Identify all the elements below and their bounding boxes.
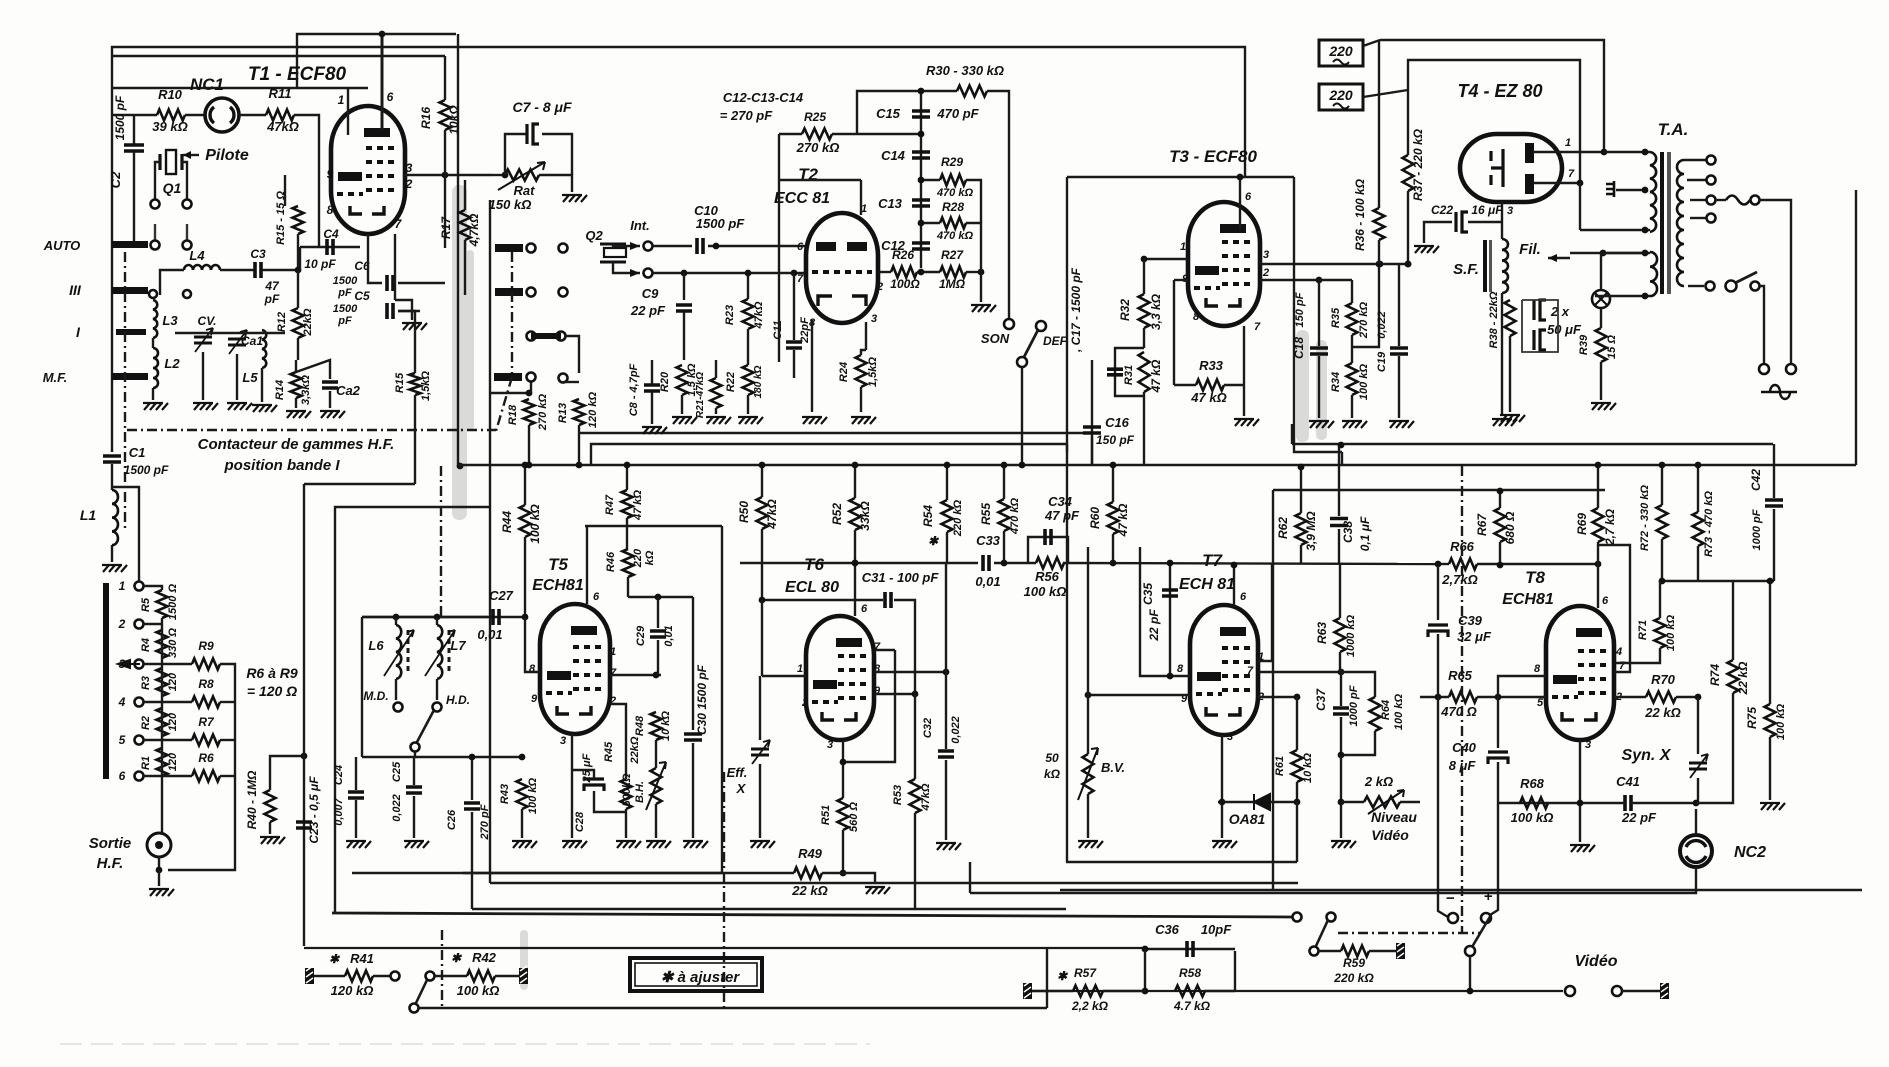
wire Q1 left leg (155, 162, 160, 199)
wire R21 up (715, 360, 717, 378)
node C23 tap (301, 753, 308, 760)
svg-text:4: 4 (1615, 646, 1622, 658)
terminal box 220 lower (1319, 84, 1363, 110)
wire R25 right (832, 133, 921, 135)
wire Rat right (539, 175, 572, 192)
trimmer CV (194, 337, 212, 343)
filter choke S.F. (1483, 240, 1487, 292)
svg-text:220 kΩ: 220 kΩ (1333, 971, 1374, 985)
chain line left (124, 252, 126, 530)
contact d1 (527, 288, 536, 297)
svg-text:10 pF: 10 pF (304, 257, 336, 271)
wire Q2 top (613, 244, 640, 246)
svg-text:R14: R14 (274, 380, 286, 400)
svg-text:R52: R52 (830, 503, 844, 525)
wire C36 line (1145, 948, 1235, 950)
resistor R15 (293, 206, 304, 234)
svg-text:Eff.: Eff. (727, 765, 748, 780)
svg-text:R2: R2 (140, 716, 152, 730)
node R65-C39 (1435, 694, 1442, 701)
wire R49 left (463, 872, 794, 874)
wire NC2 down (970, 867, 1696, 893)
coil L3 (153, 300, 157, 338)
svg-text:22 kΩ: 22 kΩ (1736, 661, 1750, 695)
potentiometer Rat (505, 170, 539, 181)
wire NC1-R11 (239, 114, 266, 116)
wire R54 up (946, 465, 948, 500)
svg-text:120: 120 (167, 752, 179, 771)
chain R42 (441, 930, 443, 1010)
svg-text:100Ω: 100Ω (890, 277, 920, 291)
ground R27-R28 (971, 305, 996, 312)
resistor R49 (794, 868, 822, 879)
svg-text:III: III (69, 282, 82, 298)
resistor R15b (410, 373, 421, 395)
wire R39 down (1600, 362, 1602, 400)
wire R71 down (1616, 648, 1660, 663)
wire effx gnd (759, 764, 761, 838)
wire C39 down (1437, 634, 1439, 697)
svg-text:3: 3 (871, 313, 877, 325)
wire R25 line (779, 133, 802, 135)
capacitor C41 (1625, 795, 1631, 811)
contact f1 (527, 373, 536, 382)
wire L6 tail (395, 679, 397, 700)
wire C32 gnd (945, 760, 947, 840)
arrow at tap3 (118, 660, 140, 668)
coil L4 (184, 265, 220, 270)
wire C8 up (651, 360, 653, 384)
chain video switch v (1461, 466, 1463, 933)
wire R16 below (444, 175, 446, 248)
box a ajuster (630, 958, 762, 991)
wire R47 up (626, 465, 628, 490)
svg-text:1500 pF: 1500 pF (696, 216, 745, 231)
switch bar AUTO (112, 241, 148, 248)
wire T3 frame left (1066, 177, 1068, 452)
wire Ca2 loop (296, 360, 330, 379)
wire Rchain (161, 618, 163, 776)
wire NC2 up (1695, 809, 1697, 835)
connector NC2 (1680, 835, 1712, 867)
svg-text:100 kΩ: 100 kΩ (1358, 364, 1370, 401)
svg-text:0,01: 0,01 (663, 625, 675, 646)
svg-text:7: 7 (1254, 321, 1261, 333)
wire TA tap1 (1684, 159, 1706, 161)
wire diode left (1218, 801, 1254, 803)
resistor R51 (838, 798, 849, 830)
wire T3 pin9 drop (1173, 280, 1175, 385)
wire R ladder right (168, 664, 235, 870)
node R51-R49 (840, 870, 847, 877)
wire R52 down (854, 530, 856, 563)
resistor R64 (1370, 697, 1381, 731)
wire R13 down (578, 425, 580, 465)
wire Ca1 gnd (236, 354, 238, 400)
wire T3 pin9 (1174, 279, 1188, 281)
ground C18 (1309, 421, 1334, 428)
svg-text:R56: R56 (1035, 569, 1060, 584)
resistor R45 (621, 779, 632, 809)
resistor R56 (1036, 558, 1064, 569)
terminal ant1 (135, 582, 144, 591)
wire tap2 (144, 623, 162, 625)
wire L3-L2 (152, 338, 154, 348)
node c10 right (713, 243, 720, 250)
node C35 join (1167, 673, 1174, 680)
node sortie (156, 867, 163, 874)
svg-text:R60: R60 (1088, 507, 1102, 529)
wire sortie gnd (158, 870, 160, 886)
wire C4 line (300, 246, 360, 248)
svg-text:1000 kΩ: 1000 kΩ (1345, 614, 1357, 657)
svg-text:C18: C18 (1292, 337, 1306, 359)
svg-text:470 kΩ: 470 kΩ (936, 230, 974, 242)
svg-text:1,5kΩ: 1,5kΩ (867, 357, 879, 387)
resistor R53 (910, 779, 921, 813)
chassis tap symbol (1606, 184, 1614, 194)
resistor R16 (440, 100, 451, 130)
svg-text:1: 1 (610, 646, 616, 658)
resistor R75 (1765, 704, 1776, 737)
svg-text:R6: R6 (198, 751, 214, 765)
svg-text:1: 1 (1180, 241, 1186, 253)
contact Int2 (644, 269, 653, 278)
resistor R25 (802, 129, 832, 140)
svg-text:M.D.: M.D. (363, 689, 388, 703)
svg-text:Niveau: Niveau (1371, 809, 1417, 825)
wire R29 right (966, 180, 981, 223)
wire trim syn up (1697, 697, 1699, 754)
svg-text:B.V.: B.V. (1101, 760, 1125, 775)
svg-text:1: 1 (797, 663, 803, 675)
wire BH gnd (655, 804, 657, 838)
svg-text:R39: R39 (1578, 334, 1590, 355)
resistor R50 (757, 497, 768, 529)
transformer core T.A. (1660, 152, 1664, 294)
svg-text:47 kΩ: 47 kΩ (1190, 390, 1226, 405)
wire L7 tail (436, 679, 438, 700)
svg-text:25 μF: 25 μF (581, 753, 593, 783)
node R50 bus (759, 462, 766, 469)
wire R23 up (747, 273, 749, 299)
wire C29 down (657, 640, 659, 675)
svg-text:R23: R23 (724, 305, 736, 325)
svg-text:C34: C34 (1048, 494, 1073, 509)
wire R12 wire (297, 270, 299, 308)
wire T6 pin1 (762, 675, 806, 677)
wire C9 drop (683, 273, 685, 300)
tube T3 ECF80 (1188, 202, 1260, 326)
wire R49 right (822, 873, 875, 884)
svg-text:DEF.: DEF. (1043, 334, 1069, 348)
svg-text:120: 120 (167, 712, 179, 731)
ground L1 (102, 565, 127, 572)
svg-text:R18: R18 (507, 404, 519, 425)
block R57 end (1023, 983, 1032, 999)
svg-text:470 kΩ: 470 kΩ (936, 187, 974, 199)
switch bar row1 (495, 244, 523, 252)
wire y56 (112, 55, 445, 57)
tube T6 ECL80 (806, 616, 874, 740)
capacitor C31b (1107, 369, 1123, 375)
svg-text:3,9 MΩ: 3,9 MΩ (1304, 511, 1318, 551)
terminal sw R42 (426, 972, 435, 981)
wire T8 pin8 (1498, 676, 1546, 697)
svg-text:22 pF: 22 pF (1621, 810, 1657, 825)
svg-text:6: 6 (1602, 595, 1609, 607)
ground B.H. (646, 841, 671, 848)
wire box1 to frame (1363, 90, 1408, 97)
svg-text:R57: R57 (1074, 966, 1097, 980)
svg-text:Vidéo: Vidéo (1371, 827, 1409, 843)
wire C38 up (1338, 445, 1340, 516)
wire Int2 to T2pin7 (653, 272, 807, 274)
svg-text:Int.: Int. (630, 218, 650, 233)
wire R57 right (1103, 990, 1145, 992)
wire trim syn down (1697, 778, 1699, 803)
wire line y862 (1066, 861, 1297, 863)
wire R61 frame (1296, 802, 1298, 862)
wire L4-C3 (220, 269, 255, 271)
svg-text:7: 7 (797, 273, 804, 285)
ground C25 (404, 841, 429, 848)
wire T1 inner frame (297, 34, 456, 88)
tube T5 ECH81 (540, 604, 610, 734)
svg-text:1,5kΩ: 1,5kΩ (420, 371, 432, 401)
wire L6L7 top (362, 616, 488, 618)
wire R45 gnd (625, 809, 627, 838)
terminal sw2 (1751, 282, 1760, 291)
ground Ca2 (320, 411, 345, 418)
resistor R40 (265, 790, 276, 822)
wire C4 left (299, 247, 301, 270)
node C3-R15 (295, 267, 302, 274)
capacitor C6 (387, 275, 393, 291)
svg-text:R51: R51 (820, 805, 832, 825)
svg-text:15 Ω: 15 Ω (1606, 335, 1618, 359)
wire C36 lv (1144, 949, 1146, 991)
svg-text:pF: pF (337, 287, 352, 299)
resistor R21 (711, 378, 722, 408)
wire C28 loop (572, 770, 594, 779)
svg-text:47 kΩ: 47 kΩ (632, 490, 644, 521)
svg-text:R43: R43 (499, 784, 511, 804)
wire C41 left (1497, 802, 1625, 804)
resistor R32 (1139, 294, 1150, 328)
ground Rat (562, 195, 587, 202)
wire T6 pin9 (874, 693, 915, 695)
svg-text:0,007: 0,007 (333, 797, 345, 825)
capacitor C27 (493, 609, 499, 625)
wire R42 left (435, 975, 467, 977)
resistor R24 (856, 355, 867, 387)
ground B.V. (1078, 841, 1103, 848)
svg-text:100 kΩ: 100 kΩ (1393, 694, 1405, 731)
svg-text:R16: R16 (419, 107, 433, 129)
svg-text:7: 7 (1568, 168, 1575, 180)
terminal plug2 (1786, 364, 1796, 374)
node R65-C40 (1495, 694, 1502, 701)
wire taps (144, 586, 162, 590)
switch bar row3 (494, 373, 522, 381)
svg-text:L4: L4 (189, 248, 205, 263)
wire R28 left (921, 222, 940, 224)
wire DEF down (1021, 367, 1023, 465)
wire C22 left (1424, 222, 1452, 243)
wire R24 gnd (860, 387, 862, 412)
svg-text:R65: R65 (1448, 668, 1473, 683)
wire C18 drop (1318, 280, 1320, 346)
svg-text:T7: T7 (1202, 551, 1223, 570)
svg-text:C12-C13-C14: C12-C13-C14 (723, 90, 804, 105)
wire C8 down (651, 392, 653, 424)
svg-text:R25: R25 (804, 110, 826, 124)
svg-text:R64: R64 (1380, 700, 1392, 720)
wire C27 to pin8 (525, 617, 540, 672)
svg-text:2,7 kΩ: 2,7 kΩ (1603, 508, 1617, 546)
svg-text:SON: SON (981, 331, 1010, 346)
wire R28 right (966, 223, 981, 302)
svg-text:22 pF: 22 pF (1147, 609, 1161, 642)
svg-text:R53: R53 (892, 785, 904, 805)
node BV tap (1085, 692, 1092, 699)
wire video bus y563 b (994, 562, 1036, 564)
node R68 right (1577, 800, 1584, 807)
capacitor 2x50a (1532, 300, 1535, 320)
resistor R8 (192, 697, 220, 708)
wire C30 vert (692, 597, 694, 730)
wire BV gnd (1087, 794, 1089, 838)
svg-text:8: 8 (1177, 663, 1184, 675)
svg-text:C19: C19 (1376, 351, 1388, 372)
terminal tap1 (1707, 156, 1716, 165)
wire R37 down (1407, 191, 1409, 267)
wire L6 stub (395, 617, 397, 625)
wire pin3 ext (1380, 263, 1408, 265)
wire C11 up (793, 273, 795, 340)
capacitor C12 (912, 243, 930, 249)
svg-text:6: 6 (593, 591, 600, 603)
wire C17 line (1091, 360, 1093, 465)
resistor R52 (850, 498, 861, 530)
svg-text:Syn. X: Syn. X (1622, 747, 1672, 764)
svg-text:+: + (1484, 888, 1493, 905)
wire T4 pin3 (1501, 202, 1503, 239)
wire R50 up (761, 465, 763, 497)
svg-text:R20: R20 (659, 371, 671, 392)
svg-text:220: 220 (1328, 87, 1353, 103)
wire frame bottom y873 (352, 872, 722, 874)
switch R42 lever (416, 980, 427, 1003)
svg-text:120 kΩ: 120 kΩ (587, 392, 599, 429)
node R26 right (918, 269, 925, 276)
wire T4 pin7 (1533, 182, 1580, 184)
wire R64 down (1341, 731, 1375, 755)
node C27 right (522, 614, 529, 621)
node C36 left (1142, 946, 1149, 953)
wire C5 line (398, 310, 420, 312)
wire C26 down (471, 812, 473, 909)
node R30 left (918, 88, 925, 95)
wire C27 line (362, 616, 524, 618)
svg-text:T4 - EZ 80: T4 - EZ 80 (1457, 81, 1542, 101)
svg-text:R35: R35 (1330, 307, 1342, 328)
resistor R41 (345, 971, 373, 982)
wire R16 top (444, 56, 446, 100)
capacitor C23 (296, 822, 312, 828)
svg-text:R73 - 470 kΩ: R73 - 470 kΩ (1703, 491, 1715, 557)
svg-text:B.H.: B.H. (634, 781, 646, 803)
svg-text:R13: R13 (557, 403, 569, 423)
resistor R59 (1341, 946, 1369, 957)
node R67 top (1497, 488, 1504, 495)
node T4 pin7 (1577, 180, 1584, 187)
wire R6 right (220, 775, 235, 777)
wire C42 down (1773, 509, 1775, 581)
wire R48 down (655, 740, 657, 768)
wire x490 vertical (489, 200, 491, 883)
svg-text:C24: C24 (333, 765, 345, 785)
terminal sw bottom b (1327, 913, 1336, 922)
wire L7 stub (436, 617, 438, 625)
wire C35 drop (1169, 563, 1171, 676)
wire T1 pin7 link (395, 300, 412, 320)
wire R55 up (1003, 465, 1005, 499)
svg-text:1500 pF: 1500 pF (124, 463, 169, 477)
resistor R74 (1728, 660, 1739, 693)
resistor R35 (1347, 303, 1358, 335)
wire frame bottom T5 (335, 507, 490, 913)
chain selector (511, 252, 513, 373)
wire R62 down (1300, 545, 1302, 563)
svg-text:L7: L7 (450, 638, 466, 653)
wire R59 right (1369, 950, 1396, 952)
svg-text:0,1 μF: 0,1 μF (1358, 516, 1372, 551)
capacitor C19 (1390, 348, 1408, 354)
capacitor C3 (255, 262, 261, 278)
ground SF (1492, 419, 1517, 426)
wire C19 drop (1398, 264, 1400, 346)
node T7 pin6 (1231, 562, 1238, 569)
wire C29 drop (657, 597, 659, 628)
wire y597 line (628, 596, 693, 598)
svg-text:R49: R49 (798, 846, 823, 861)
resistor R38 (1505, 300, 1516, 336)
resistor R60 (1108, 502, 1119, 534)
wire 2k left (1341, 801, 1364, 803)
terminal R41 (391, 972, 400, 981)
tube T7 ECH81 (1190, 605, 1258, 735)
node T3 pin6 (1237, 174, 1244, 181)
svg-text:47 kΩ: 47 kΩ (1116, 503, 1130, 537)
wire antenna left (111, 445, 113, 452)
wire R15 down (297, 234, 299, 270)
svg-text:C38: C38 (1341, 521, 1355, 543)
wire R22 gnd (747, 395, 749, 414)
wire R18 down (528, 425, 530, 465)
wire sw rise (1046, 948, 1048, 1008)
wire Q2 bot (613, 262, 640, 273)
wire T8 pin3 (1579, 740, 1581, 842)
svg-text:R63: R63 (1315, 622, 1329, 644)
wire C6 left (368, 234, 382, 283)
node pin3-R36 (1377, 261, 1384, 268)
contact b1 (151, 241, 160, 250)
svg-text:T1 - ECF80: T1 - ECF80 (248, 64, 347, 85)
ground R24 (851, 417, 876, 424)
ground C8 (642, 427, 667, 434)
